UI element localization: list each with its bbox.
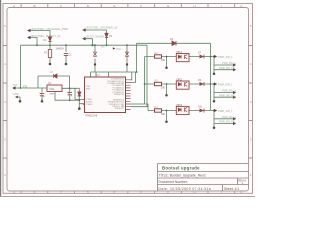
wire flagB2 to rail <box>85 39 92 46</box>
flag ch1 branch b <box>233 68 236 71</box>
ground ch2 opto <box>165 94 168 97</box>
svg-text:OK2: OK2 <box>176 78 182 82</box>
frame top ticks <box>21 4 235 8</box>
resistor R4 <box>155 109 162 112</box>
flag top1 <box>27 29 30 32</box>
wire rail right left descender <box>136 43 138 72</box>
wire IC top pin stubs <box>96 72 109 77</box>
ground under D5 <box>78 107 81 110</box>
wire ch1 drop <box>166 57 168 67</box>
junction wire71 x136.6 <box>136 71 138 73</box>
svg-text:F: F <box>140 4 142 8</box>
svg-text:PWR_SW_1: PWR_SW_1 <box>218 82 233 86</box>
svg-text:PB5(SCK): PB5(SCK) <box>114 94 124 96</box>
svg-text:VCC: VCC <box>116 47 122 51</box>
wire rail drop x50 <box>49 45 51 49</box>
svg-text:E: E <box>113 190 115 194</box>
resistor R3 <box>155 82 162 85</box>
diode D1 on flag1 vertical <box>48 37 51 45</box>
IC1 left pins <box>83 100 85 105</box>
svg-text:IC1: IC1 <box>96 74 100 77</box>
wire IC right top pin 2 <box>131 72 136 83</box>
resistor R1 below rail <box>48 50 51 58</box>
wire IC right bottom pin 2 <box>131 106 148 108</box>
title block row line 3 <box>158 177 249 179</box>
wire IC right top pin 1 <box>131 72 132 80</box>
diode D5 drop x79 <box>78 92 82 96</box>
svg-text:A: A <box>13 4 15 8</box>
flag ch2 branch b <box>233 96 236 99</box>
opto OK3 <box>176 106 189 114</box>
page background <box>0 0 255 197</box>
junction ch2 right <box>213 83 215 85</box>
wire ch2 drop <box>166 84 168 94</box>
wire channel2 <box>145 83 214 85</box>
svg-text:H: H <box>193 190 195 194</box>
wire ch2 branch b <box>214 96 233 98</box>
flag ch2 branch a <box>233 91 236 94</box>
wire ch1 right drop <box>213 57 215 73</box>
svg-text:Bootsel upgrade: Bootsel upgrade <box>162 165 200 170</box>
wire V2 vertical <box>147 45 149 106</box>
svg-text:D11: D11 <box>198 106 203 109</box>
flag topB1 <box>82 28 85 31</box>
wire ch1 branch a <box>214 64 233 66</box>
svg-text:OK3: OK3 <box>176 103 182 107</box>
svg-text:OSC: OSC <box>13 85 18 87</box>
wire channel1 <box>145 56 214 58</box>
junction ch1 drop <box>166 56 168 58</box>
svg-text:PWR_SW_A: PWR_SW_A <box>222 116 236 119</box>
svg-text:BOOTSEL_UPGRADE_5V: BOOTSEL_UPGRADE_5V <box>87 26 118 30</box>
ground under resonator cap left <box>41 100 44 103</box>
wire ch2 branch a <box>214 92 233 94</box>
flag topB2 <box>82 37 85 40</box>
junction rail x95 <box>94 44 96 46</box>
rail label VCC <box>113 47 116 50</box>
ground under R1 <box>49 63 52 66</box>
frame bottom ticks <box>21 191 235 193</box>
diode D4 inline on rail x172 <box>172 41 176 46</box>
wire main rail left <box>21 44 148 46</box>
frame column letters <box>4 4 252 195</box>
svg-text:GND: GND <box>13 92 19 96</box>
wire above IC left end stub <box>90 72 92 77</box>
diode D7 ch1 out <box>200 55 205 59</box>
svg-text:1N4004: 1N4004 <box>56 49 65 51</box>
ground ch3 opto <box>165 121 168 124</box>
title block outline <box>158 164 249 192</box>
flag ch1 branch a <box>233 63 236 66</box>
svg-text:B: B <box>33 190 35 194</box>
diode D2 x95 <box>93 52 97 56</box>
wire resonator left cap <box>38 88 47 101</box>
svg-text:PWR_SW_1: PWR_SW_1 <box>218 109 233 113</box>
wire ch2 right drop <box>213 84 215 100</box>
wire left vertical to resonator <box>16 45 39 88</box>
dark bottom image edge <box>0 196 255 197</box>
wire cap C4 vertical <box>69 88 71 100</box>
ground ch3 right <box>213 127 216 130</box>
svg-text:A: A <box>13 190 15 194</box>
wire V1 vertical <box>145 57 148 111</box>
wire ch1 branch b <box>214 69 233 71</box>
wire left gnd flag <box>18 97 21 101</box>
svg-text:TITLE: Bootsel_Upgrade_Rev2: TITLE: Bootsel_Upgrade_Rev2 <box>159 174 206 178</box>
flag ch1 main <box>214 55 217 58</box>
wire channel3 <box>148 110 214 112</box>
svg-text:K: K <box>240 190 242 194</box>
svg-text:PWR_SW_A: PWR_SW_A <box>222 62 236 65</box>
svg-text:8MHz: 8MHz <box>50 93 56 95</box>
junction bus ch1 <box>210 56 212 58</box>
junction left resonator <box>20 87 22 89</box>
ground ch1 opto <box>165 67 168 70</box>
opto OK1 <box>176 54 189 62</box>
junction ch2 drop <box>166 83 168 85</box>
svg-text:ATMEGA8: ATMEGA8 <box>85 113 98 117</box>
junction ch3 right <box>213 110 215 112</box>
svg-text:H: H <box>193 4 195 8</box>
svg-text:BOOT_SENSE: BOOT_SENSE <box>87 34 105 38</box>
diode D2b on flagB1 vertical <box>105 33 108 37</box>
junction ch3 drop <box>166 110 168 112</box>
wire right bus vertical <box>210 43 212 110</box>
junction D5 bottom <box>78 99 80 101</box>
junction rail x37 <box>36 44 38 46</box>
wire ch3 branch b <box>214 123 233 125</box>
wire resistor R1 bottom <box>49 58 51 63</box>
junction bus ch2 <box>210 83 212 85</box>
svg-text:Sheet: 1/1: Sheet: 1/1 <box>224 187 239 191</box>
svg-text:XTAL2: XTAL2 <box>86 103 93 106</box>
svg-text:F: F <box>140 190 142 194</box>
opto OK2 <box>176 81 189 89</box>
flag left gnd <box>15 96 18 99</box>
svg-text:PWR_SW_RB: PWR_SW_RB <box>219 121 235 124</box>
IC1 internal pin names left <box>86 86 93 106</box>
flag left resonator <box>12 86 15 89</box>
wire ch3 drop <box>166 111 168 121</box>
flag ch3 branch b <box>233 122 236 125</box>
wire ch3 right drop <box>213 111 215 127</box>
diode D9 ch2 out <box>200 82 205 86</box>
svg-text:BOOTSEL_SUPPLY_IN: BOOTSEL_SUPPLY_IN <box>32 34 61 38</box>
junction rail x106.5 <box>106 44 108 46</box>
svg-text:OK1: OK1 <box>176 50 182 54</box>
ground mid drop x95 <box>94 63 96 65</box>
dark left image edge <box>0 0 1 197</box>
diode on resonator loop top <box>54 74 57 78</box>
wire flag2 to rail <box>30 38 37 46</box>
ground under left flag <box>19 100 22 103</box>
IC1 internal pin names right <box>107 79 124 111</box>
svg-text:PWR_SW_RB: PWR_SW_RB <box>219 67 235 70</box>
resistor R2 <box>155 55 162 58</box>
wire D5 vertical to IC pin XTAL2 and gnd <box>79 88 84 107</box>
svg-text:K: K <box>240 4 242 8</box>
junction rail x66 <box>65 44 67 46</box>
wire above IC <box>91 71 137 73</box>
wire flag1 to rail <box>30 31 50 37</box>
flag ch3 main <box>214 109 217 112</box>
capacitor C2 x127 <box>125 52 129 56</box>
svg-text:PWR_SW_RB: PWR_SW_RB <box>219 94 235 97</box>
ground ch1 right <box>213 73 216 76</box>
junction rail x50 <box>49 44 51 46</box>
junction ch2 V1 <box>144 83 146 85</box>
flag top2 <box>27 36 30 39</box>
svg-text:Date: 10/05/2009 07:34:31a: Date: 10/05/2009 07:34:31a <box>159 187 212 191</box>
wire cap C1 bottom <box>65 58 67 63</box>
wire resonator loop <box>38 76 70 88</box>
flag ch3 branch a <box>233 117 236 120</box>
capacitor C1 x66 <box>64 53 68 58</box>
junction rail x127 <box>126 44 128 46</box>
wire main rail right <box>137 42 211 44</box>
svg-text:Document Number:: Document Number: <box>159 180 188 184</box>
svg-text:PB0(ICP): PB0(ICP) <box>115 108 125 110</box>
junction ch1 right <box>213 56 215 58</box>
capacitor C4 right of resonator <box>67 92 72 97</box>
flag ch2 main <box>214 82 217 85</box>
wire resonator right side <box>62 87 79 89</box>
svg-text:E: E <box>113 4 115 8</box>
sheet divider <box>222 185 224 192</box>
ground mid drop x127 <box>126 63 128 65</box>
wire rail drop x66 <box>65 45 67 52</box>
junction rail x92.5 (flagB2) <box>91 44 93 46</box>
wire rail drop x96 <box>94 45 96 72</box>
frame left ticks <box>3 46 7 159</box>
frame inner border <box>7 8 249 192</box>
svg-text:PWR_SW_1: PWR_SW_1 <box>218 55 233 59</box>
ground under C1 <box>65 63 68 66</box>
svg-text:BOOTSEL_UPGRADE_PWR: BOOTSEL_UPGRADE_PWR <box>32 27 69 31</box>
rev box divider <box>237 178 239 185</box>
svg-text:B: B <box>33 4 35 8</box>
IC1 right pins <box>83 80 131 110</box>
wire resonator to IC pin XTAL1 <box>75 88 84 99</box>
svg-text:AGND: AGND <box>86 101 93 104</box>
wire rail drop x127 <box>126 45 128 72</box>
svg-text:XTAL: XTAL <box>49 88 55 91</box>
svg-text:+5V: +5V <box>101 46 106 49</box>
svg-text:XT1: XT1 <box>23 87 28 89</box>
frame right ticks <box>249 46 253 159</box>
wire IC right bottom pin 1 <box>131 103 145 105</box>
junction dots <box>20 44 215 111</box>
capacitor C3 left of resonator <box>40 93 45 101</box>
title block row line 4 <box>158 184 249 186</box>
frame outer border <box>3 4 253 194</box>
ground ch2 right <box>213 100 216 103</box>
wire flagB1 to rail <box>85 30 106 45</box>
resonator Q1 box <box>47 85 62 92</box>
junction C4 bottom <box>69 99 71 101</box>
title block row line 2 <box>158 171 249 173</box>
svg-text:PWR_SW_A: PWR_SW_A <box>222 90 236 93</box>
junction C4 top <box>69 87 71 89</box>
diode D11 ch3 out <box>200 109 205 113</box>
wire resonator center pin down <box>55 92 79 101</box>
wire ch3 branch a <box>214 118 233 120</box>
